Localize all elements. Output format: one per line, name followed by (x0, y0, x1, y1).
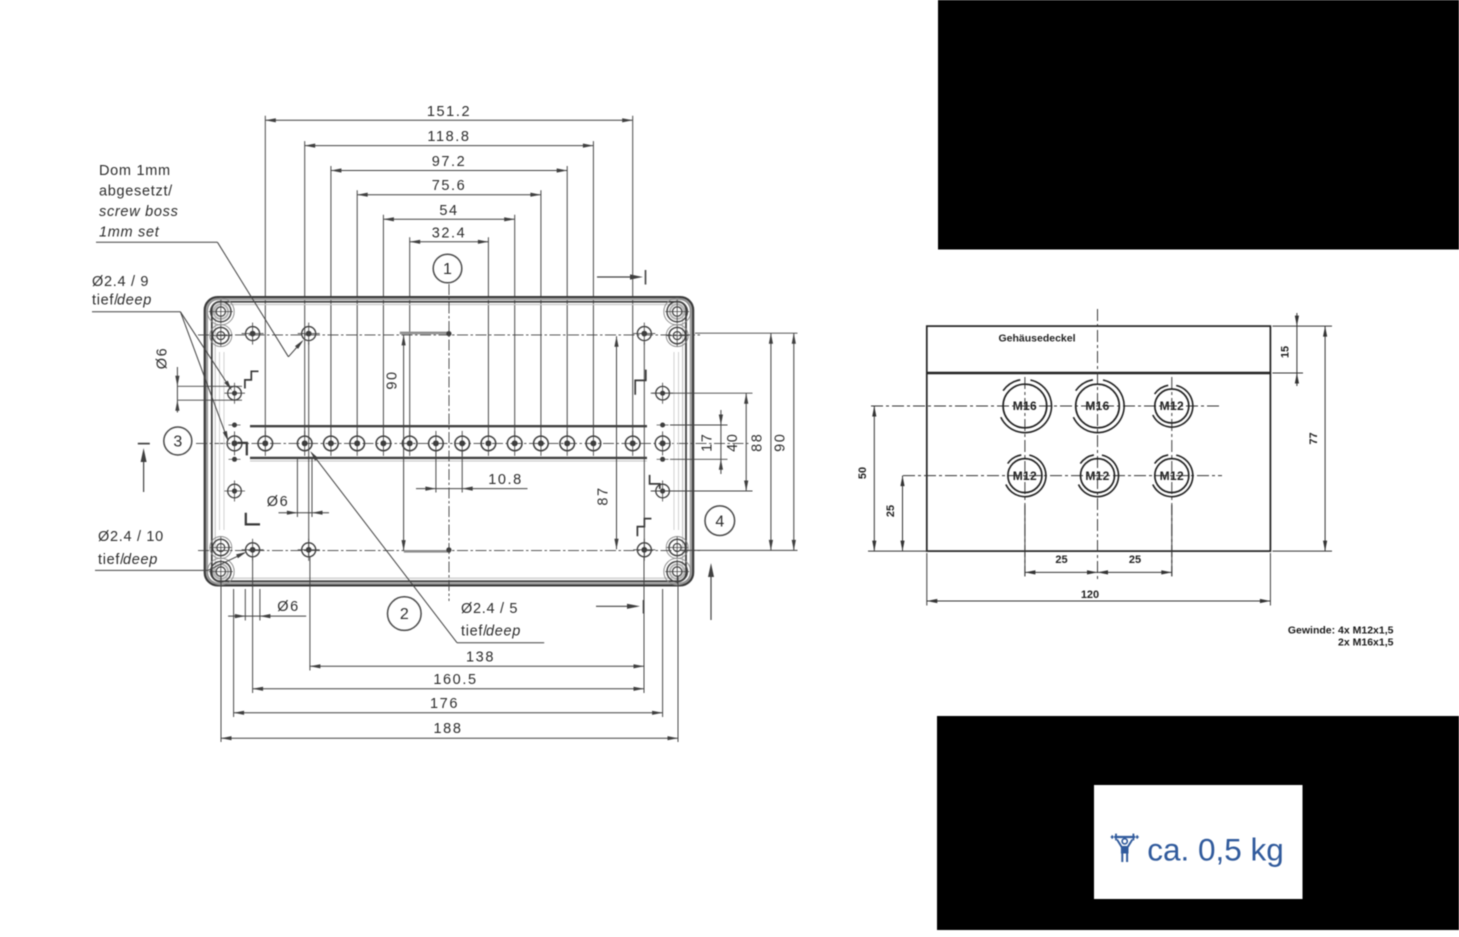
terminal hole 7 (429, 431, 444, 456)
terminal hole 10 (507, 431, 522, 456)
small holes right (657, 423, 669, 462)
terminal hole 3 (324, 431, 339, 456)
flange row hole right (655, 431, 670, 455)
terminal hole 8 (455, 431, 470, 456)
mount hole top x644 (633, 323, 655, 345)
dimension 75.6 (357, 178, 541, 437)
redaction panel top-right (938, 0, 1459, 250)
terminal hole 13 (586, 431, 601, 456)
bottom extension lines (221, 342, 678, 742)
corner screw boss bottom-left (207, 536, 234, 585)
flange hole left y491 (224, 481, 245, 502)
screw boss flat bottom (404, 550, 451, 553)
step mark top-right (635, 370, 646, 395)
svg-text:M12: M12 (1160, 469, 1184, 483)
dimension 87 interior (596, 336, 619, 549)
section arrow A top-right (597, 270, 646, 285)
column centreline 1 (1024, 377, 1026, 576)
svg-text:Ø6: Ø6 (277, 599, 300, 615)
dimension 25 left (885, 476, 905, 551)
weight box (1094, 785, 1303, 899)
svg-text:50: 50 (857, 467, 869, 479)
terminal hole 14 (625, 431, 640, 456)
step mark bottom-right (637, 519, 651, 537)
svg-text:Ø2.4 / 5: Ø2.4 / 5 (461, 601, 518, 617)
flange hole left y393 (224, 383, 245, 404)
dimension 118.8 (305, 129, 594, 437)
lid vertical centreline (1097, 309, 1099, 579)
svg-text:M12: M12 (1160, 399, 1184, 413)
dimension 90 right (773, 333, 796, 550)
terminal hole 6 (402, 431, 417, 456)
note Gewinde threads (1288, 625, 1394, 649)
dimension O6 mid-left (267, 458, 329, 518)
svg-text:Ø2.4 / 10: Ø2.4 / 10 (98, 529, 164, 545)
dimension O6 bottom (228, 599, 306, 618)
dimension 120 (927, 553, 1271, 606)
svg-text:54: 54 (439, 203, 458, 219)
corner bracket bottom-left (246, 513, 260, 525)
dimension 50 (857, 406, 928, 551)
corner screw boss bottom-right (664, 536, 691, 585)
redaction panel bottom-right (937, 716, 1459, 930)
balloon 3 (164, 427, 192, 455)
svg-text:188: 188 (434, 721, 463, 737)
dimension 54 (383, 203, 514, 437)
mount hole bottom x644 (633, 539, 655, 561)
svg-text:tief/: tief/ (92, 293, 119, 309)
flange hole right y393 (652, 383, 673, 404)
terminal row upper bar (250, 425, 647, 427)
terminal hole 1 (258, 431, 273, 456)
svg-text:75.6: 75.6 (432, 178, 467, 194)
svg-text:4: 4 (715, 513, 724, 530)
svg-text:deep: deep (117, 293, 152, 309)
dimension 160.5 (253, 672, 644, 691)
row centreline 2 (903, 475, 1222, 477)
terminal hole 4 (350, 431, 365, 456)
terminal hole 5 (376, 431, 391, 456)
svg-text:120: 120 (1081, 589, 1099, 601)
dimension 138 (310, 649, 644, 668)
svg-text:Ø6: Ø6 (267, 494, 290, 510)
step mark top-left (245, 371, 259, 388)
mount hole top x252 (242, 323, 264, 345)
svg-text:87: 87 (596, 486, 612, 505)
svg-text:1: 1 (443, 261, 452, 278)
dimension 40 (725, 393, 749, 491)
svg-text:deep: deep (123, 552, 158, 568)
mount hole bottom x308 (298, 539, 320, 561)
svg-text:M12: M12 (1085, 469, 1109, 483)
svg-text:Gehäusedeckel: Gehäusedeckel (998, 333, 1075, 345)
dimension 188 (221, 721, 678, 740)
terminal hole 11 (534, 431, 549, 456)
corner screw boss top-left (207, 298, 234, 347)
svg-text:15: 15 (1280, 346, 1292, 358)
svg-text:77: 77 (1308, 432, 1320, 444)
svg-text:Ø6: Ø6 (155, 347, 171, 370)
terminal hole 9 (481, 431, 496, 456)
svg-text:Dom 1mm: Dom 1mm (99, 163, 171, 179)
balloon 4 (705, 506, 735, 536)
terminal hole 12 (560, 431, 575, 456)
note Dom 1mm abgesetzt (96, 163, 304, 357)
svg-text:90: 90 (385, 370, 401, 389)
threaded hole M12 (1153, 385, 1193, 427)
section arrow bottom (708, 563, 714, 620)
note O2.4/10 tief-deep (95, 529, 247, 570)
lid outline (927, 326, 1271, 551)
threaded hole M16 (1073, 380, 1124, 433)
step mark row-left (238, 443, 247, 456)
section arrow lower-right (596, 600, 644, 614)
dimension 88 (750, 333, 774, 550)
lid top band line (927, 372, 1271, 375)
centreline mount row top (198, 334, 700, 336)
terminal row lower bar (250, 458, 647, 461)
svg-text:10.8: 10.8 (488, 472, 523, 488)
svg-text:abgesetzt/: abgesetzt/ (99, 184, 173, 200)
svg-text:32.4: 32.4 (432, 225, 467, 241)
corner screw boss top-right (664, 298, 691, 347)
svg-text:3: 3 (173, 434, 182, 451)
svg-text:17: 17 (700, 433, 716, 452)
terminal row centreline (196, 442, 750, 444)
svg-text:tief/: tief/ (98, 552, 125, 568)
left wall rib (219, 352, 221, 530)
threaded hole M16 (1001, 380, 1052, 433)
svg-text:151.2: 151.2 (427, 104, 471, 120)
dimension 77 (1272, 326, 1332, 551)
svg-text:M16: M16 (1085, 399, 1109, 413)
svg-text:97.2: 97.2 (432, 154, 467, 170)
dimension 25+25 bottom (1025, 505, 1172, 577)
svg-text:2: 2 (400, 606, 409, 623)
svg-text:25: 25 (1129, 554, 1141, 566)
svg-text:25: 25 (885, 505, 897, 517)
svg-text:118.8: 118.8 (427, 129, 470, 145)
dimension 97.2 (331, 154, 567, 437)
mount hole top x308 (298, 323, 320, 345)
note O2.4/5 tief-deep (310, 451, 544, 643)
step mark row-right (650, 475, 660, 489)
mount hole bottom x252 (242, 539, 264, 561)
svg-text:M16: M16 (1013, 399, 1037, 413)
centreline mount row bottom (198, 550, 700, 552)
svg-text:ca. 0,5 kg: ca. 0,5 kg (1147, 832, 1284, 868)
svg-text:Ø2.4 / 9: Ø2.4 / 9 (92, 274, 149, 290)
svg-text:88: 88 (750, 433, 766, 452)
svg-text:screw boss: screw boss (99, 204, 179, 220)
balloon 2 (388, 597, 422, 631)
vertical centreline (448, 284, 450, 601)
row centreline 1 (871, 405, 1222, 407)
extension lines right side (651, 333, 798, 550)
svg-text:176: 176 (430, 696, 459, 712)
dimension 10.8 (416, 451, 528, 493)
weight lifter icon (1111, 834, 1139, 862)
dimension 151.2 (265, 104, 632, 437)
flange hole right y491 (652, 481, 673, 502)
dimension 176 (234, 696, 663, 715)
threaded hole M12 (1079, 455, 1119, 497)
dimension 90 interior (385, 335, 406, 551)
dimension O6 left rotated (155, 347, 243, 413)
svg-text:160.5: 160.5 (433, 672, 477, 688)
svg-text:40: 40 (725, 433, 741, 452)
svg-text:1mm set: 1mm set (99, 225, 160, 241)
screw boss flat top (Dom 1mm) (400, 332, 451, 335)
svg-text:138: 138 (466, 649, 495, 665)
flange row hole left (227, 431, 242, 455)
threaded hole M12 (1153, 455, 1193, 497)
terminal hole 2 (297, 431, 312, 456)
dimension 17 (700, 410, 724, 474)
dimension 32.4 (410, 225, 489, 437)
column centreline 3 (1171, 377, 1173, 576)
svg-text:M12: M12 (1013, 469, 1037, 483)
section arrow left (138, 444, 150, 492)
small holes left (229, 423, 241, 462)
svg-text:25: 25 (1055, 554, 1067, 566)
balloon 1 (433, 254, 462, 283)
svg-text:tief/: tief/ (461, 624, 488, 640)
note O2.4/9 tief-deep (92, 274, 232, 442)
right wall rib (673, 352, 675, 530)
svg-text:Gewinde: 4x M12x1,5: Gewinde: 4x M12x1,5 (1288, 625, 1394, 637)
svg-text:deep: deep (486, 624, 521, 640)
svg-text:2x M16x1,5: 2x M16x1,5 (1338, 637, 1394, 649)
threaded hole M12 (1006, 455, 1046, 497)
svg-text:90: 90 (773, 433, 789, 452)
dimension 15 (1272, 313, 1332, 386)
enclosure outer wall (205, 297, 694, 586)
